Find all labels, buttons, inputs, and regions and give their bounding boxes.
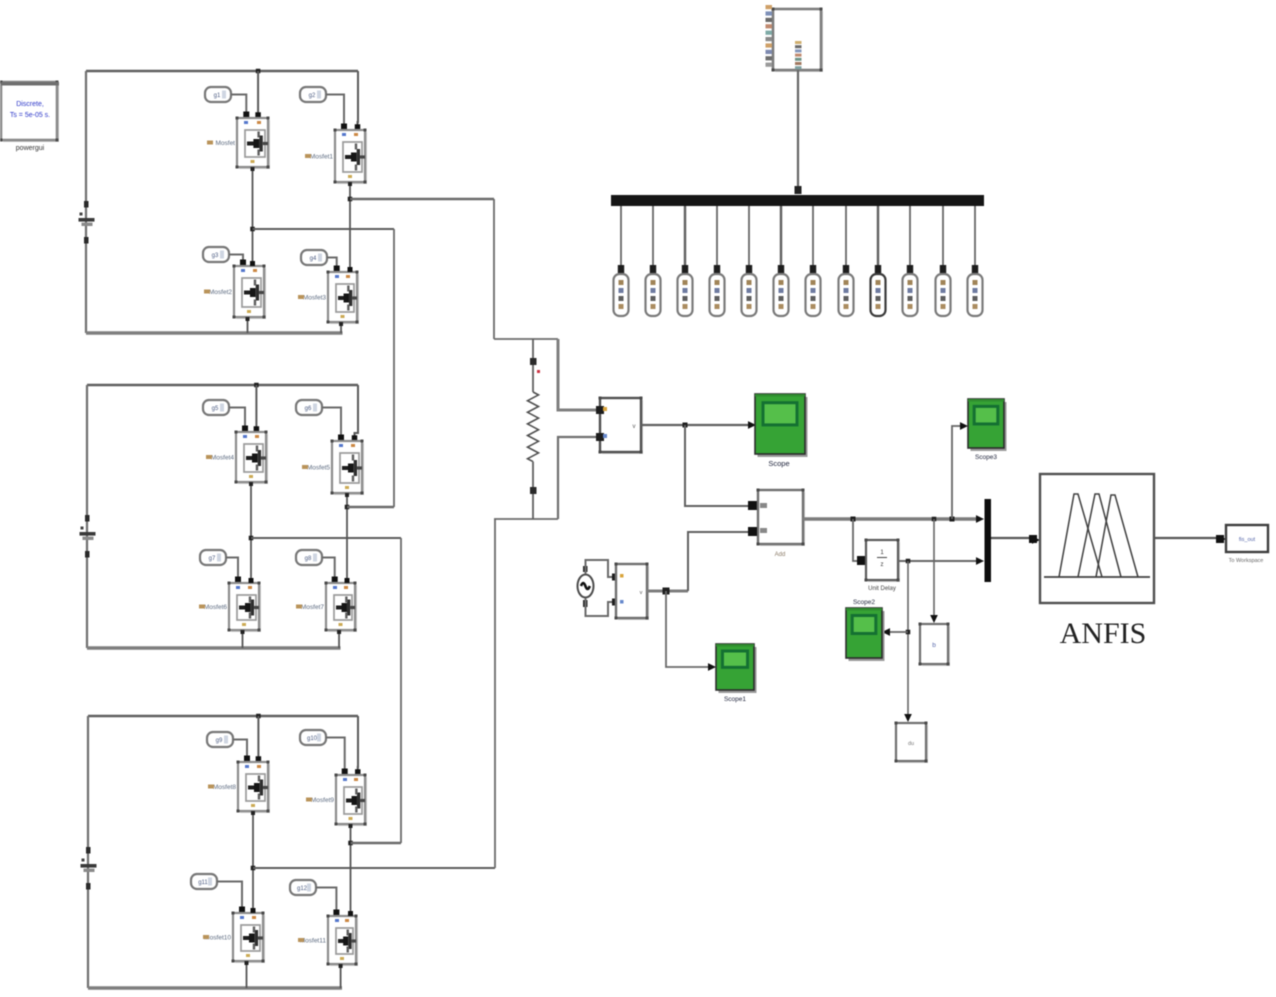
from tag g2 (300, 87, 326, 102)
svg-text:g1: g1 (214, 93, 221, 99)
svg-text:Scope: Scope (768, 459, 789, 468)
from tag g11 (191, 874, 217, 889)
arrow into unit delay (858, 557, 866, 565)
node - drop 1 connector (618, 265, 624, 273)
membership function triangle 3 (1096, 495, 1138, 577)
wire - bar drop 4 (716, 206, 718, 266)
svg-text:fis_out: fis_out (1239, 537, 1256, 543)
membership function triangle 1 (1059, 494, 1102, 577)
wire - g4 to gate (327, 258, 337, 268)
wire - g10 to gate (326, 738, 345, 771)
wire - Q3 source to bottom rail (247, 317, 249, 333)
arrow into Scope2 (882, 628, 890, 636)
sum block (760, 492, 805, 546)
wire - down into block b (933, 519, 935, 617)
node - junction to saturation block (932, 517, 937, 522)
svg-text:Mosfet7: Mosfet7 (301, 604, 325, 611)
svg-text:g11: g11 (198, 880, 208, 886)
wire - Q4 source to bottom rail (340, 322, 342, 333)
DC voltage source E3 (86, 847, 91, 854)
svg-text:Add: Add (775, 552, 786, 558)
wire - down to unit delay input (853, 519, 858, 561)
mosfet Q5 (Mosfet4) (238, 434, 268, 484)
svg-text:powergui: powergui (16, 145, 45, 152)
node - drop 8 connector (843, 265, 849, 273)
svg-text:g10: g10 (307, 736, 318, 742)
wire - g5 to gate (229, 408, 245, 428)
node - drop 3 connector (682, 265, 688, 273)
mosfet Q3 (Mosfet2) (236, 268, 266, 319)
scope Scope2 (849, 611, 885, 661)
pulse generator subsystem block (775, 11, 823, 72)
node - bridge 2 top rail junction (254, 383, 259, 388)
node - resistor plus mark (red) (537, 370, 540, 373)
wire - down to terminator (907, 561, 909, 714)
DC voltage source E1 (84, 201, 89, 208)
wire - Q11 source to bottom rail (246, 961, 248, 988)
wire - g3 to gate (229, 255, 243, 262)
wire - bridge 2 right output tap (347, 506, 394, 509)
node - bar input port (795, 186, 802, 194)
voltage measurement block VM1 (602, 400, 643, 454)
wire - bridge 3 right leg (350, 824, 352, 916)
wire - g7 to gate (226, 558, 238, 579)
node - bridge 3 top rail junction (256, 714, 261, 719)
wire - VM1 output to scope1 (641, 424, 748, 426)
goto tag G12 (968, 274, 983, 316)
wire - bar drop 10 (909, 206, 911, 266)
svg-text:Mosfet6: Mosfet6 (204, 604, 228, 611)
wire - bar drop 6 (780, 206, 782, 266)
from tag g6 (296, 400, 322, 415)
svg-text:g6: g6 (305, 406, 312, 412)
svg-text:Mosfet8: Mosfet8 (213, 784, 237, 791)
arrow into mux top input (976, 515, 984, 523)
powergui block (3, 84, 59, 142)
wire - unit delay output to mux (898, 560, 976, 562)
wire - bar drop 8 (845, 206, 847, 266)
wire - bridge 1 bottom DC rail (86, 331, 343, 334)
svg-text:Mosfet1: Mosfet1 (310, 154, 334, 161)
wire - Q8 source to bottom rail (338, 630, 340, 648)
mosfet Q12 (Mosfet11) (330, 918, 358, 966)
wire - bridge 2 bottom DC rail (87, 646, 341, 649)
wire - load top node to VM1 plus input (558, 339, 600, 410)
unit delay block (868, 542, 900, 582)
wire - up to Scope3 (952, 426, 960, 519)
arrow into sum input 1 (749, 502, 757, 510)
voltage measurement block VM2 (618, 566, 649, 620)
svg-text:b: b (932, 642, 936, 649)
gain block b (922, 626, 950, 666)
svg-text:Mosfet2: Mosfet2 (209, 289, 233, 296)
scope Scope1 (reference) (719, 647, 757, 693)
wire - g6 to gate (322, 408, 341, 437)
svg-text:v: v (633, 424, 636, 430)
wire - bridge1 right tap down to load top (493, 199, 495, 339)
wire - bar drop 7 (812, 206, 814, 266)
svg-text:g8: g8 (305, 556, 312, 562)
wire - g12 to gate (316, 888, 336, 912)
wire - bridge 1 left DC wire (85, 71, 87, 333)
wire - source plus loop to VM2 (586, 560, 615, 577)
node - bridge 3 right leg tap (348, 841, 353, 846)
from tag g8 (296, 550, 322, 565)
node - bridge 2 right leg tap (345, 505, 350, 510)
wire - VM1 branch down to sum input 1 (685, 425, 748, 506)
mosfet Q9 (Mosfet8) (240, 764, 270, 813)
svg-text:Mosfet9: Mosfet9 (311, 797, 335, 804)
wire - sum output bus (803, 517, 976, 520)
wire - rail to Q5 drain (255, 385, 257, 432)
wire - bridge 2 right leg (346, 493, 348, 583)
wire - resistor top lead (532, 339, 534, 392)
mosfet Q4 (Mosfet3) (330, 274, 359, 324)
from tag g1 (205, 87, 231, 102)
resistor R load (528, 392, 539, 462)
arrow into block b (930, 615, 938, 623)
wire - rail to Q6 drain (355, 385, 359, 441)
node - junction to Scope2 (906, 630, 911, 635)
wire - VM2 branch up to sum input 2 (688, 532, 748, 591)
wire - left into Scope2 (889, 631, 908, 633)
wire - bridge 2 left DC wire (86, 385, 88, 648)
arrow into Scope3 (960, 422, 968, 430)
node - drop 5 connector (746, 265, 752, 273)
wire - bridge 3 right output tap (351, 842, 402, 845)
pulse generator inner label (795, 41, 802, 44)
wire - load bottom down to bridge3 left tap (494, 519, 496, 868)
svg-text:Discrete,: Discrete, (16, 101, 44, 108)
from tag g4 (301, 250, 327, 265)
wire - load bottom node horizontal (494, 518, 558, 520)
node - bridge 2 left leg tap (249, 536, 254, 541)
svg-text:Mosfet: Mosfet (215, 140, 235, 147)
mosfet Q2 (Mosfet1) (337, 132, 367, 184)
wire - bar drop 12 (974, 206, 976, 266)
svg-text:Ts = 5e-05 s.: Ts = 5e-05 s. (10, 112, 50, 119)
goto tag G2 (646, 274, 661, 316)
wire - rail to Q9 drain (257, 716, 259, 762)
mosfet Q7 (Mosfet6) (231, 585, 261, 632)
node - drop 6 connector (778, 265, 784, 273)
node - drop 4 connector (714, 265, 720, 273)
mosfet Q1 (Mosfet) (239, 120, 270, 169)
wire - rail to Q10 drain (357, 716, 359, 775)
demux bar (611, 195, 984, 206)
wire - g2 to gate (326, 95, 344, 126)
wire - load bottom node to VM1 minus input (558, 437, 600, 519)
svg-text:Mosfet3: Mosfet3 (303, 295, 327, 302)
from tag g7 (200, 550, 226, 565)
svg-text:g4: g4 (310, 256, 317, 262)
svg-text:g9: g9 (216, 738, 223, 744)
node - drop 12 connector (972, 265, 978, 273)
svg-text:Scope2: Scope2 (853, 599, 875, 606)
node - VM1 output junction (683, 423, 688, 428)
node - junction on unit delay output (906, 559, 911, 564)
node - drop 10 connector (907, 265, 913, 273)
node - junction to Scope3 (950, 517, 955, 522)
svg-text:Scope1: Scope1 (724, 696, 746, 703)
svg-text:Mosfet4: Mosfet4 (211, 455, 235, 462)
node - bridge 1 right leg tap (348, 197, 353, 202)
wire - g11 to gate (217, 882, 242, 909)
wire - bridge 2 left output tap (251, 537, 401, 539)
mosfet Q6 (Mosfet5) (334, 443, 364, 495)
wire - mux output to ANFIS (991, 537, 1031, 539)
node - junction to unit delay (851, 517, 856, 522)
wire - bridge 3 left output tap (253, 867, 495, 869)
goto tag G1 (614, 274, 629, 316)
terminator block (898, 725, 928, 763)
wire - g1 to gate (231, 95, 246, 114)
node - VM2 output junction (663, 588, 670, 595)
svg-text:Unit Delay: Unit Delay (868, 586, 896, 592)
mosfet Q10 (Mosfet9) (338, 777, 367, 826)
goto tag G6 (774, 274, 789, 316)
wire - bridge 3 left leg (252, 811, 254, 913)
wire - bridge 1 left leg (252, 167, 254, 266)
wire - bridge 2 left leg (250, 482, 252, 583)
wire - g8 to gate (322, 558, 335, 579)
wire - source minus loop to VM2 (586, 598, 615, 616)
svg-text:g12: g12 (297, 886, 308, 892)
mosfet Q11 (Mosfet10) (235, 915, 265, 963)
pulse generator side label (766, 5, 773, 9)
arrow into sum input 2 (749, 528, 757, 536)
wire - bar drop 3 (684, 206, 686, 266)
node - drop 9 connector (875, 265, 881, 273)
arrow into terminator (904, 714, 912, 722)
wire - bridge 1 right leg (349, 182, 351, 272)
wire - bar drop 1 (620, 206, 622, 266)
wire - g9 to gate (233, 740, 247, 758)
svg-text:g5: g5 (212, 406, 219, 412)
node - drop 11 connector (940, 265, 946, 273)
wire - VM2 branch down to scope1 (reference scope) (666, 591, 708, 667)
wire - Q12 source to bottom rail (340, 964, 342, 988)
svg-text:g7: g7 (209, 556, 216, 562)
wire - rail to Q2 drain (357, 71, 360, 130)
goto tag G9 (871, 274, 886, 316)
from tag g9 (207, 732, 233, 747)
svg-text:g3: g3 (212, 253, 219, 259)
arrow into ANFIS (1032, 536, 1040, 544)
wire - bridge 1 right output tap (350, 198, 494, 201)
scope Scope (output voltage) (758, 397, 808, 457)
AC reference source Vref (578, 575, 594, 598)
goto tag G8 (839, 274, 854, 316)
wire - pulse generator to demux bar (797, 70, 799, 193)
arrow into scope1 (748, 421, 756, 429)
svg-text:Scope3: Scope3 (975, 454, 997, 461)
wire - bridge 3 bottom DC rail (88, 986, 342, 989)
node - resistor top port (530, 358, 537, 365)
svg-text:To Workspace: To Workspace (1229, 558, 1264, 564)
svg-text:g2: g2 (309, 93, 316, 99)
wire - rail to Q1 drain (257, 71, 259, 118)
node - bridge 3 left leg tap (251, 866, 256, 871)
scope Scope3 (971, 402, 1007, 451)
goto tag G3 (678, 274, 693, 316)
wire - bridge 3 top DC rail (88, 715, 358, 718)
arrow into reference scope (708, 663, 716, 671)
node - resistor bottom port (530, 487, 537, 494)
wire - bridge1 left tap down to bridge2 right tap (393, 229, 395, 507)
wire - bridge 2 top DC rail (87, 384, 358, 387)
from tag g12 (290, 880, 316, 895)
node - drop 7 connector (810, 265, 816, 273)
ANFIS fuzzy block (1040, 474, 1154, 603)
wire - bar drop 5 (748, 206, 750, 266)
DC voltage source E2 (85, 515, 90, 522)
wire - bar drop 2 (652, 206, 654, 266)
wire - bridge 1 top DC rail (86, 70, 358, 73)
arrow into mux bottom input (976, 557, 984, 565)
from tag g10 (300, 730, 326, 745)
wire - Q7 source to bottom rail (242, 630, 244, 648)
svg-text:z: z (881, 562, 884, 568)
goto tag G5 (742, 274, 757, 316)
from tag g3 (203, 247, 229, 262)
goto tag G4 (710, 274, 725, 316)
wire - VM2 output (647, 590, 688, 593)
wire - bridge2 left tap down to bridge3 right tap (400, 538, 402, 843)
goto tag G11 (936, 274, 951, 316)
goto tag G10 (903, 274, 918, 316)
arrow into out block (1218, 535, 1226, 543)
from tag g5 (203, 400, 229, 415)
wire - bridge 3 left DC wire (87, 716, 89, 988)
svg-text:Mosfet5: Mosfet5 (307, 465, 331, 472)
wire - ANFIS output (1154, 537, 1218, 539)
node - drop 2 connector (650, 265, 656, 273)
node - bridge 1 top rail junction (256, 69, 261, 74)
wire - bar drop 11 (942, 206, 944, 266)
svg-text:v: v (640, 590, 643, 596)
wire - load top node horizontal (494, 338, 558, 340)
svg-text:ANFIS: ANFIS (1060, 617, 1147, 650)
mosfet Q8 (Mosfet7) (328, 585, 357, 632)
svg-text:du: du (908, 741, 914, 747)
node - bridge 1 left leg tap (250, 227, 255, 232)
wire - resistor bottom lead (532, 462, 534, 519)
to-workspace block fis_out (1226, 525, 1268, 552)
mux bar (985, 499, 992, 582)
membership function triangle 2 (1078, 494, 1121, 577)
goto tag G7 (806, 274, 821, 316)
wire - bridge 1 left output tap (253, 228, 395, 230)
wire - bar drop 9 (877, 206, 879, 266)
